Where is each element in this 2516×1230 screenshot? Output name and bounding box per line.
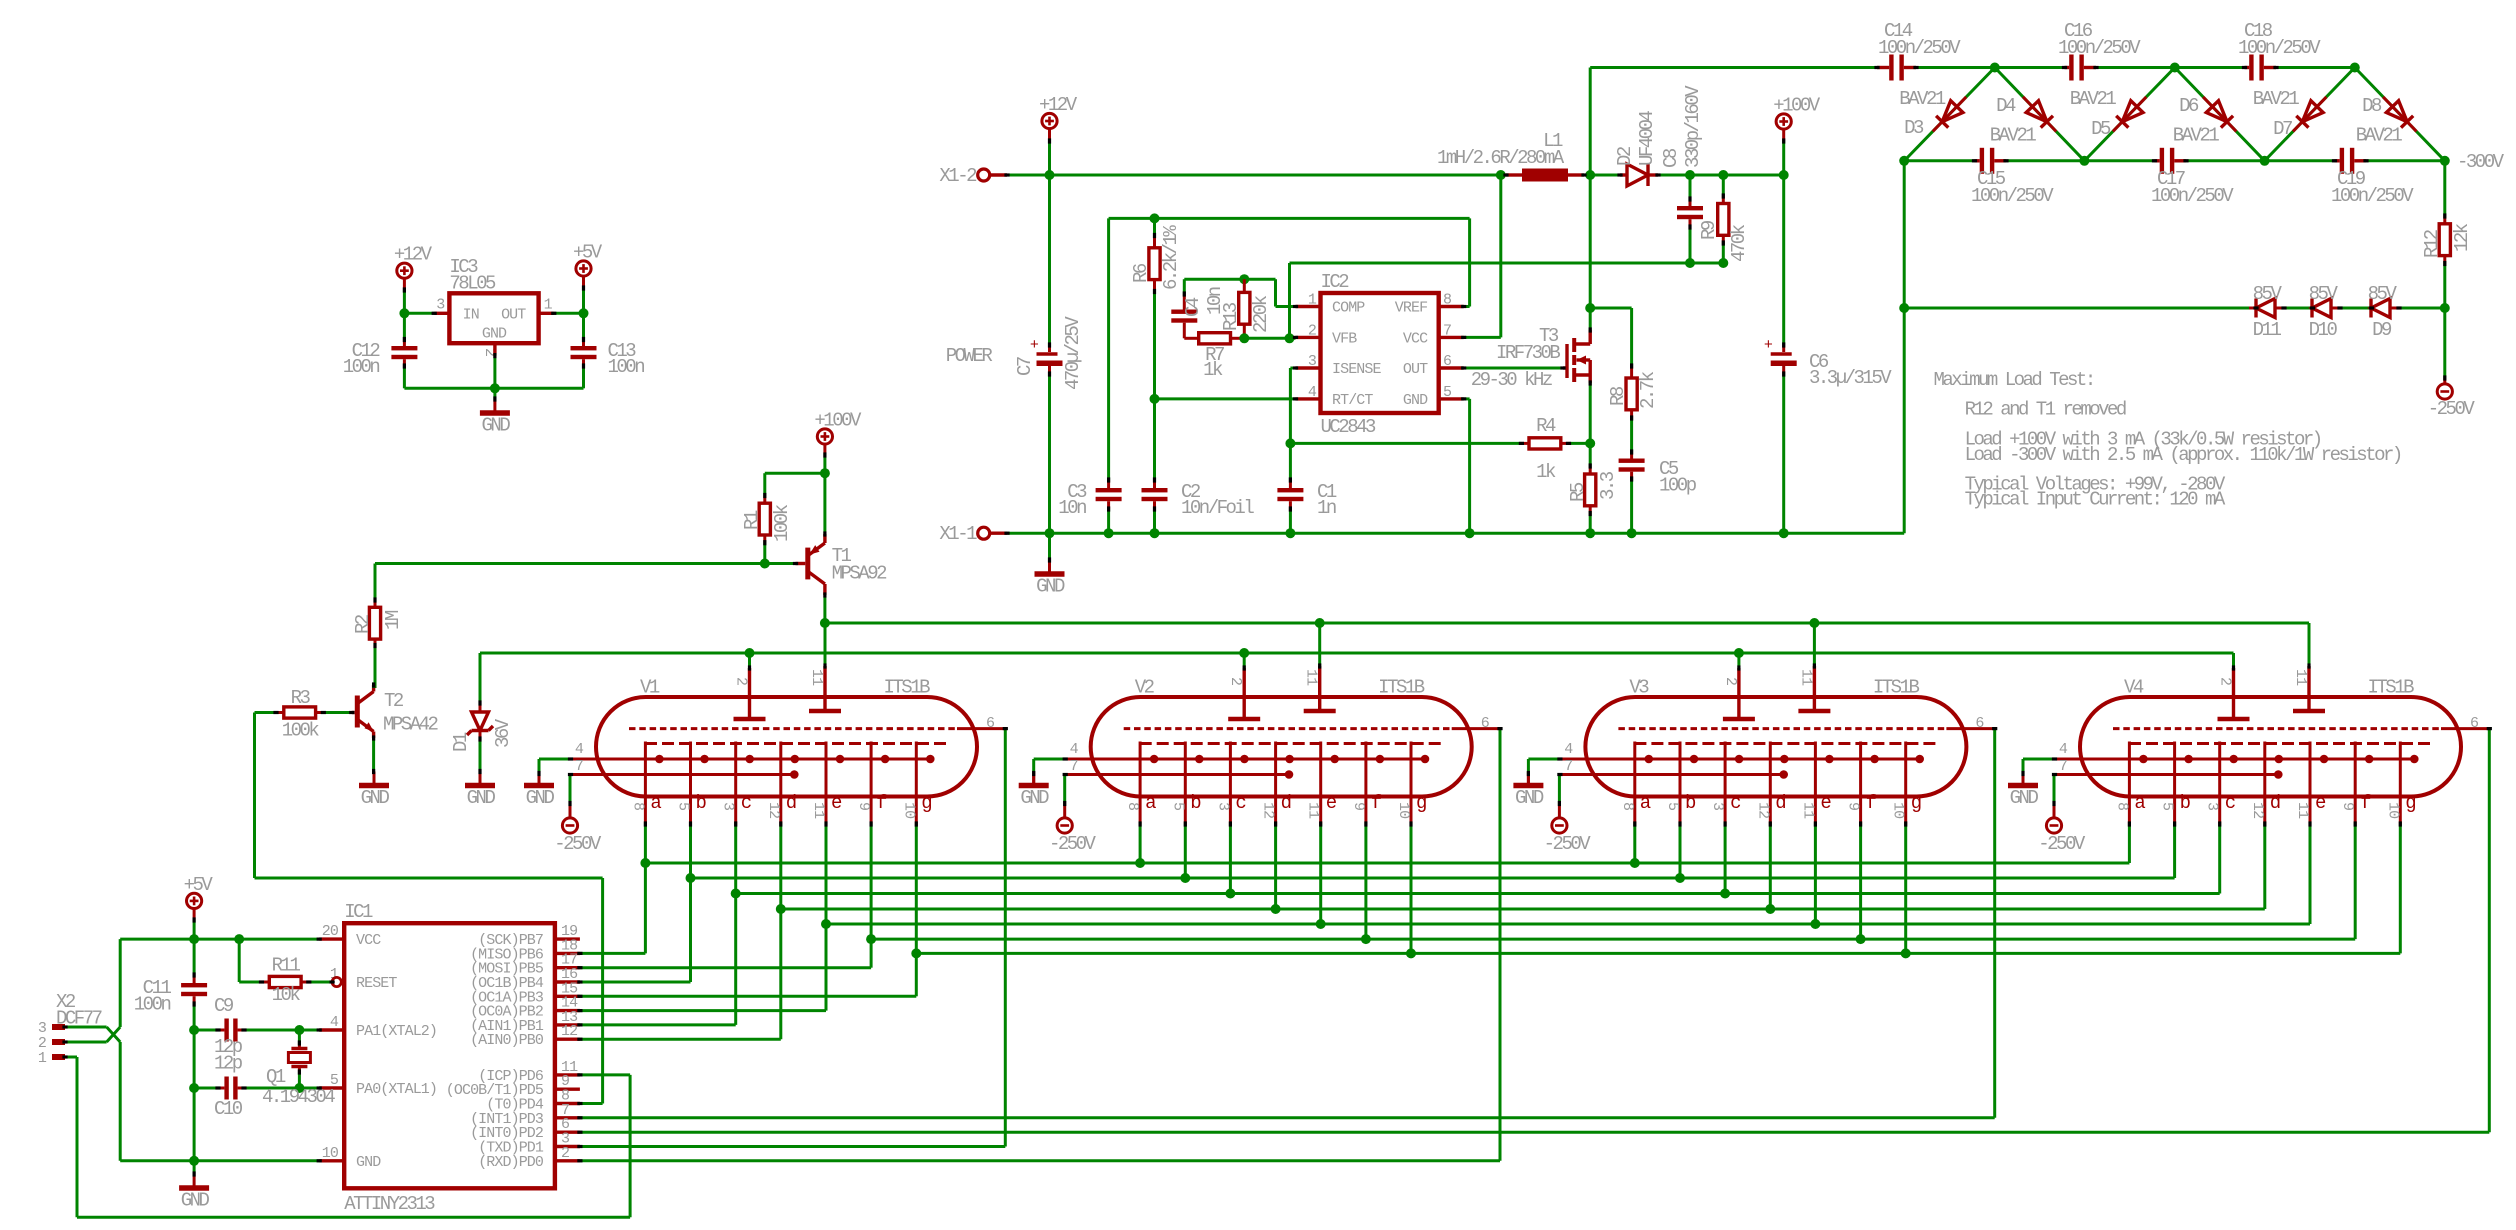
svg-text:Typical Input Current: 120 mA: Typical Input Current: 120 mA — [1965, 489, 2226, 511]
capacitor C2 10n/Foil — [1153, 399, 1156, 480]
V4 grid dashed line pin 6 — [2113, 727, 2441, 730]
wire — [823, 455, 826, 473]
wire L1 to D2 — [1584, 174, 1620, 177]
svg-text:R12 and T1 removed: R12 and T1 removed — [1965, 399, 2126, 421]
wire GND bus — [1007, 532, 1904, 535]
svg-text:470k: 470k — [1728, 224, 1750, 262]
svg-text:12: 12 — [765, 802, 782, 818]
diode D6 BAV21 — [2175, 68, 2265, 161]
wire X2 pin2 — [65, 1041, 107, 1044]
wire V4 pin4 to GND — [2023, 758, 2055, 761]
V2 pin 2 anode electrode — [1242, 668, 1245, 719]
svg-text:R1: R1 — [741, 510, 763, 530]
wire COMP top line — [1184, 278, 1275, 281]
svg-text:OUT: OUT — [1403, 361, 1428, 378]
+5V supply symbol IC1 — [187, 893, 202, 908]
svg-text:GND: GND — [361, 787, 390, 809]
svg-text:4: 4 — [575, 741, 584, 758]
svg-text:100k: 100k — [282, 720, 320, 742]
svg-text:R13: R13 — [1220, 302, 1242, 331]
capacitor C13 — [582, 313, 585, 339]
junction — [579, 308, 589, 318]
wire D2 to C8 node — [1658, 174, 1784, 177]
svg-text:-250V: -250V — [1544, 833, 1592, 855]
wire X2 pin3 to GND — [119, 1042, 122, 1161]
V4 pin 2 anode electrode — [2232, 668, 2235, 719]
wire V2 pin4 to GND — [1034, 758, 1066, 761]
svg-text:ATTINY2313: ATTINY2313 — [344, 1193, 435, 1215]
+100V supply symbol — [1776, 114, 1791, 129]
V3 cathode columns — [1633, 742, 1636, 825]
svg-text:8: 8 — [629, 802, 646, 811]
svg-text:2: 2 — [2217, 677, 2234, 685]
pin 18 stub IC1 — [555, 952, 580, 955]
wire — [2096, 66, 2175, 69]
svg-text:7: 7 — [575, 758, 583, 775]
wire — [1916, 66, 1995, 69]
wire pin2 V3 — [1737, 653, 1740, 668]
svg-text:3.3µ/315V: 3.3µ/315V — [1809, 367, 1892, 389]
wire row a to IC1 pin 18 — [644, 863, 647, 953]
wire OUT to gate — [1464, 367, 1563, 370]
svg-text:T2: T2 — [384, 690, 404, 712]
svg-text:+5V: +5V — [573, 242, 603, 264]
resistor R11 10k — [238, 939, 241, 982]
wire VREF line — [1109, 217, 1470, 220]
svg-text:2: 2 — [1722, 677, 1739, 685]
svg-text:100n: 100n — [134, 994, 171, 1016]
svg-text:GND: GND — [181, 1190, 210, 1212]
svg-text:IRF730B: IRF730B — [1496, 342, 1560, 364]
svg-text:D11: D11 — [2253, 319, 2282, 341]
pad X1-2 — [978, 169, 990, 181]
svg-text:g: g — [2405, 792, 2415, 814]
wire pin2 V1 — [748, 653, 751, 668]
wire X2 pin3 — [65, 1026, 107, 1029]
svg-text:GND: GND — [526, 787, 555, 809]
svg-text:-300V: -300V — [2457, 151, 2505, 173]
V1 cathode columns — [644, 742, 647, 825]
diode D5 BAV21 — [2084, 68, 2174, 161]
ground symbol V4 — [2022, 772, 2025, 786]
wire — [2186, 159, 2335, 162]
svg-text:11: 11 — [1305, 802, 1322, 819]
svg-text:6: 6 — [986, 715, 995, 732]
svg-text:3: 3 — [720, 802, 737, 811]
junction switch node — [1585, 170, 1595, 180]
wire main +12V rail — [1007, 174, 1506, 177]
svg-text:V2: V2 — [1135, 677, 1155, 699]
wire 85V clamp line — [1904, 307, 2249, 310]
V3 pin 4 filament line — [1560, 758, 1920, 761]
svg-text:RT/CT: RT/CT — [1332, 392, 1373, 409]
svg-text:6: 6 — [1481, 715, 1490, 732]
junction — [1239, 274, 1249, 284]
junction — [2440, 303, 2450, 313]
wire ground rail of IC3 block — [404, 387, 583, 390]
svg-text:VCC: VCC — [356, 932, 381, 949]
resistor R4 1k — [1521, 442, 1529, 445]
zener diode D1 36V — [479, 653, 482, 703]
svg-text:10: 10 — [900, 802, 917, 819]
junction — [1685, 170, 1695, 180]
wire T2 emitter to gnd — [372, 738, 375, 772]
pin 6 stub IC1 — [555, 1130, 580, 1133]
pin 2 stub IC3 — [493, 343, 496, 355]
svg-text:4.194304: 4.194304 — [262, 1086, 335, 1108]
svg-text:-250V: -250V — [1049, 833, 1097, 855]
svg-text:VCC: VCC — [1403, 330, 1428, 347]
op-amp IC1 ATTINY2313 box — [344, 923, 555, 1188]
svg-text:UC2843: UC2843 — [1321, 416, 1377, 438]
wire +12V to C12/IN — [403, 290, 406, 313]
svg-text:d: d — [786, 792, 796, 814]
svg-text:GND: GND — [467, 787, 496, 809]
junction — [1685, 258, 1695, 268]
pad X2 pin 1 — [52, 1054, 65, 1060]
+100V supply symbol at T1 — [817, 429, 832, 444]
supply -250V symbol V2 — [1057, 818, 1072, 833]
svg-text:85V: 85V — [2368, 283, 2398, 305]
pin 1 stub IC3 — [539, 312, 554, 315]
wire — [1048, 141, 1051, 175]
svg-text:+: + — [1030, 337, 1039, 354]
svg-text:6.2k/1%: 6.2k/1% — [1160, 225, 1182, 290]
supply -250V symbol V3 — [1552, 818, 1567, 833]
svg-text:MPSA42: MPSA42 — [383, 714, 439, 736]
svg-text:-250V: -250V — [554, 833, 602, 855]
svg-text:D3: D3 — [1904, 117, 1924, 139]
svg-text:C7: C7 — [1014, 357, 1036, 376]
svg-text:+100V: +100V — [814, 410, 862, 432]
svg-text:D1: D1 — [450, 732, 472, 752]
junction — [820, 468, 830, 478]
svg-text:100n/250V: 100n/250V — [2331, 185, 2414, 207]
junction — [490, 383, 500, 393]
svg-text:GND: GND — [2010, 787, 2039, 809]
svg-text:100n/250V: 100n/250V — [2151, 185, 2234, 207]
ground symbol V2 — [1032, 772, 1035, 786]
tube V4 ITS1B outline — [2080, 697, 2461, 797]
svg-text:R9: R9 — [1698, 220, 1720, 240]
svg-text:OUT: OUT — [501, 307, 526, 324]
wire T1 collector — [823, 595, 826, 623]
svg-text:R3: R3 — [291, 687, 311, 709]
diode D2 UF4004 — [1620, 173, 1627, 176]
resistor R5 3.3 — [1589, 466, 1592, 474]
V4 pin 7 filament line — [2055, 773, 2279, 776]
transistor T3 IRF730B — [1563, 366, 1567, 369]
V2 pin 11 grid electrode — [1318, 666, 1321, 711]
pin 3 stub IC3 — [434, 312, 449, 315]
wire segment row e — [826, 923, 2310, 926]
svg-text:R2: R2 — [352, 614, 374, 634]
svg-text:R12: R12 — [2421, 229, 2443, 258]
svg-text:6: 6 — [1975, 715, 1984, 732]
wire row b to IC1 pin 16 — [689, 878, 692, 982]
svg-text:1M: 1M — [382, 610, 404, 630]
wire VFB divider line — [1290, 262, 1724, 265]
capacitor C12 — [403, 313, 406, 339]
wire cathode drops to rows — [644, 824, 647, 863]
svg-text:3: 3 — [436, 297, 445, 314]
diode D7 BAV21 — [2265, 68, 2355, 161]
junction drain-R8 — [1585, 303, 1595, 313]
svg-text:4: 4 — [1070, 741, 1079, 758]
svg-text:D9: D9 — [2372, 319, 2392, 341]
pin 2 stub IC1 — [555, 1159, 580, 1162]
wire row c to IC1 pin 13 — [734, 894, 737, 1025]
junction — [1239, 333, 1249, 343]
svg-text:11: 11 — [2294, 802, 2311, 819]
wire segment row f — [871, 938, 2355, 941]
svg-text:d: d — [1281, 792, 1291, 814]
wire — [2340, 307, 2371, 310]
svg-text:5: 5 — [1664, 802, 1681, 811]
svg-text:8: 8 — [1619, 802, 1636, 811]
wire — [2276, 66, 2355, 69]
capacitor C1 1n — [1289, 443, 1292, 480]
tube V3 ITS1B outline — [1585, 697, 1966, 797]
junction — [1496, 170, 1506, 180]
supply -250V symbol right — [2437, 384, 2452, 399]
svg-text:IC2: IC2 — [1321, 271, 1350, 293]
V4 cathode columns — [2128, 742, 2131, 825]
pin 13 stub IC1 — [555, 1023, 580, 1026]
svg-text:12k: 12k — [2451, 223, 2473, 252]
svg-text:9: 9 — [855, 802, 872, 810]
wire RT/CT line — [1155, 397, 1296, 400]
svg-text:D8: D8 — [2362, 95, 2382, 117]
wire — [2366, 159, 2445, 162]
+5V supply symbol at IC3 — [576, 261, 591, 276]
svg-text:R6: R6 — [1130, 263, 1152, 283]
wire VFB riser — [1288, 263, 1291, 338]
svg-text:MPSA92: MPSA92 — [832, 563, 888, 585]
svg-text:-250V: -250V — [2428, 398, 2476, 420]
svg-text:4: 4 — [2059, 741, 2068, 758]
wire top chain rail — [1589, 68, 1592, 176]
pad X1-1 — [978, 527, 990, 539]
svg-text:9: 9 — [1350, 802, 1367, 810]
V3 pin 11 grid electrode — [1813, 666, 1816, 711]
V2 pin 4 filament line — [1065, 758, 1425, 761]
svg-text:GND: GND — [356, 1154, 381, 1171]
V3 second dashed line — [1634, 742, 1937, 745]
wire R3 to PD4 route — [253, 713, 256, 879]
V1 grid dashed line pin 6 — [629, 727, 957, 730]
ground symbol D1 — [479, 772, 482, 786]
svg-text:11: 11 — [2292, 669, 2309, 686]
svg-text:Maximum Load Test:: Maximum Load Test: — [1934, 369, 2094, 391]
pin 8 stub IC1 — [555, 1102, 580, 1105]
wire row e to IC1 pin 14 — [825, 924, 828, 1011]
svg-text:g: g — [1911, 792, 1921, 814]
svg-text:9: 9 — [1845, 802, 1862, 810]
resistor R1 100k — [763, 473, 766, 495]
V1 pin 4 filament line — [571, 758, 931, 761]
svg-text:5: 5 — [1169, 802, 1186, 811]
svg-text:C10: C10 — [214, 1098, 243, 1120]
pad X2 pin 2 — [52, 1039, 65, 1045]
resistor R13 220k — [1243, 279, 1246, 292]
svg-text:85V: 85V — [2309, 283, 2339, 305]
V2 grid dashed line pin 6 — [1124, 727, 1452, 730]
svg-text:D2: D2 — [1614, 146, 1636, 166]
svg-text:V1: V1 — [640, 677, 660, 699]
svg-text:X1-1: X1-1 — [939, 523, 977, 545]
V3 grid dashed line pin 6 — [1618, 727, 1946, 730]
capacitor C6 3.3u/315V electrolytic — [1782, 175, 1785, 345]
svg-text:+100V: +100V — [1773, 95, 1821, 117]
svg-text:10: 10 — [1890, 802, 1907, 819]
svg-text:+12V: +12V — [1039, 94, 1078, 116]
wire V1 pin4 to GND — [539, 758, 571, 761]
wire row g to IC1 pin 15 — [915, 953, 918, 996]
V1 second dashed line — [645, 742, 948, 745]
svg-text:7: 7 — [1070, 758, 1078, 775]
svg-text:D6: D6 — [2179, 95, 2199, 117]
crystal Q1 4.194304 — [298, 1030, 301, 1043]
svg-text:GND: GND — [1403, 392, 1428, 409]
svg-text:D5: D5 — [2091, 118, 2111, 140]
svg-text:1n: 1n — [1317, 497, 1336, 519]
wire V4 pin7 to -250V — [2053, 773, 2057, 776]
resistor R12 12k — [2443, 161, 2446, 216]
pin 12 stub IC1 — [555, 1037, 580, 1040]
V3 pin 2 anode electrode — [1737, 668, 1740, 719]
svg-text:9: 9 — [2339, 802, 2356, 810]
wire segment row a — [645, 862, 2129, 865]
svg-text:ITS1B: ITS1B — [1873, 677, 1920, 699]
svg-text:11: 11 — [1797, 669, 1814, 686]
V3 pin 7 filament line — [1560, 773, 1784, 776]
wire pin11 V3 — [1813, 623, 1816, 666]
capacitor C9 12p — [193, 1029, 196, 1032]
svg-text:7: 7 — [2059, 758, 2067, 775]
ground symbol IC3 — [493, 388, 496, 399]
svg-text:-250V: -250V — [2038, 833, 2086, 855]
svg-text:10k: 10k — [272, 984, 301, 1006]
wire segment row d — [781, 908, 2265, 911]
svg-text:D10: D10 — [2309, 319, 2338, 341]
junction — [1899, 303, 1909, 313]
wire bottom chain rail — [1904, 159, 1974, 162]
capacitor C17 100n/250V — [2155, 159, 2160, 162]
svg-text:IC1: IC1 — [344, 901, 373, 923]
svg-text:330p/160V: 330p/160V — [1682, 85, 1704, 168]
svg-text:8: 8 — [1124, 802, 1141, 811]
capacitor C4 10n — [1183, 279, 1186, 294]
wire — [1782, 141, 1785, 175]
wire VCC line IC1 — [120, 938, 319, 941]
svg-text:6: 6 — [2470, 715, 2479, 732]
svg-text:Q1: Q1 — [266, 1066, 286, 1088]
svg-text:3: 3 — [1214, 802, 1231, 811]
svg-text:11: 11 — [808, 669, 825, 686]
svg-text:R4: R4 — [1536, 415, 1556, 437]
wire IC2 GND to bus — [1464, 397, 1470, 400]
inductor L1 — [1506, 173, 1522, 176]
svg-text:(AIN0)PB0: (AIN0)PB0 — [470, 1032, 544, 1049]
svg-text:100n/250V: 100n/250V — [2058, 37, 2141, 59]
svg-text:12p: 12p — [214, 1053, 243, 1075]
svg-text:100n/250V: 100n/250V — [1878, 37, 1961, 59]
svg-text:C4: C4 — [1182, 297, 1204, 317]
wire anode bus pin2 net — [480, 652, 2234, 655]
svg-text:C9: C9 — [214, 995, 234, 1017]
V4 pin 4 filament line — [2055, 758, 2415, 761]
svg-text:100n/250V: 100n/250V — [1971, 185, 2054, 207]
diode D9 85V — [2370, 307, 2374, 310]
svg-text:1mH/2.6R/280mA: 1mH/2.6R/280mA — [1437, 147, 1565, 169]
svg-text:12: 12 — [1260, 802, 1277, 818]
svg-text:PA1(XTAL2): PA1(XTAL2) — [356, 1023, 437, 1040]
wire V3 pin4 to GND — [1528, 758, 1560, 761]
wire X2 pin2 to VCC — [119, 939, 122, 1027]
resistor R2 1M — [374, 564, 377, 601]
wire pin2 V4 — [2232, 653, 2235, 668]
svg-text:GND: GND — [1515, 787, 1544, 809]
svg-text:10n/Foil: 10n/Foil — [1181, 497, 1254, 519]
capacitor C18 100n/250V — [2245, 66, 2250, 69]
svg-text:29-30 kHz: 29-30 kHz — [1471, 369, 1552, 391]
capacitor C19 100n/250V — [2335, 159, 2340, 162]
svg-text:COMP: COMP — [1332, 300, 1365, 317]
pin 1 RESET stub with inversion circle — [332, 977, 341, 986]
supply -250V symbol V1 — [562, 818, 577, 833]
svg-text:GND: GND — [482, 415, 511, 437]
wire T3 drain — [1589, 175, 1592, 330]
svg-text:8: 8 — [2113, 802, 2130, 811]
svg-text:4: 4 — [1564, 741, 1573, 758]
svg-text:7: 7 — [1564, 758, 1572, 775]
diode D11 85V — [2249, 307, 2256, 310]
junction apex dots — [1990, 63, 2000, 73]
junction — [1150, 213, 1160, 223]
transistor T2 MPSA42 — [355, 696, 360, 728]
V1 pin 7 filament line — [571, 773, 795, 776]
wire segment row c — [736, 892, 2220, 895]
svg-text:C8: C8 — [1660, 148, 1682, 168]
wire VCC riser — [1464, 336, 1501, 339]
svg-text:ITS1B: ITS1B — [883, 677, 930, 699]
svg-text:GND: GND — [1036, 576, 1065, 598]
wire DCF77 to PD6 — [580, 1073, 630, 1076]
junction — [399, 308, 409, 318]
wire X2 pin1 DCF signal — [65, 1056, 77, 1059]
svg-text:3.3: 3.3 — [1597, 471, 1619, 500]
svg-text:+12V: +12V — [394, 244, 433, 266]
pin 15 stub IC1 — [555, 995, 580, 998]
V4 second dashed line — [2129, 742, 2432, 745]
wire R4 line — [1290, 442, 1521, 445]
svg-text:BAV21: BAV21 — [2070, 88, 2117, 110]
svg-text:RESET: RESET — [356, 975, 397, 992]
transistor T1 MPSA92 — [805, 548, 810, 580]
svg-text:1k: 1k — [1203, 359, 1223, 381]
svg-text:11: 11 — [1303, 669, 1320, 686]
svg-text:12: 12 — [2249, 802, 2266, 818]
wire — [2284, 307, 2312, 310]
diode D10 85V — [2311, 307, 2315, 310]
tube V2 ITS1B outline — [1091, 697, 1472, 797]
pin 16 stub IC1 — [555, 980, 580, 983]
svg-text:R11: R11 — [272, 955, 301, 977]
svg-text:+5V: +5V — [184, 874, 214, 896]
svg-text:R8: R8 — [1607, 386, 1629, 406]
wire segment row g — [916, 952, 2400, 955]
